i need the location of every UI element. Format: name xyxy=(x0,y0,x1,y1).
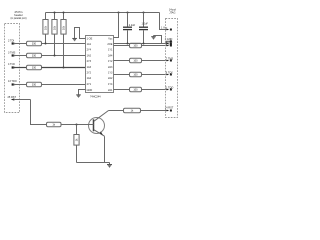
node dots on GND rail xyxy=(127,43,129,45)
svg-text:1A4: 1A4 xyxy=(87,77,92,80)
wire bottom ground rail xyxy=(77,162,110,164)
svg-text:1Y4: 1Y4 xyxy=(108,83,113,86)
IC U1 pin labels left xyxy=(87,37,93,92)
svg-text:10k: 10k xyxy=(62,25,65,30)
svg-text:330: 330 xyxy=(32,55,37,58)
header text: 25 pin male header (in parallel port) xyxy=(11,10,27,20)
wire row3 to IC (bold) xyxy=(42,67,86,69)
svg-text:1k: 1k xyxy=(131,110,134,113)
wire to pin 14 RST xyxy=(141,110,167,112)
capacitor C1 2.2uF xyxy=(123,13,136,44)
svg-text:1A3: 1A3 xyxy=(87,66,92,69)
ground (emitter) xyxy=(107,163,112,168)
svg-text:1.0uF: 1.0uF xyxy=(142,22,149,25)
right row C : wire IC to resistor xyxy=(114,74,130,76)
right row D : wire IC to resistor xyxy=(114,89,130,91)
svg-text:3 TMS: 3 TMS xyxy=(8,52,16,55)
svg-text:4 TCK: 4 TCK xyxy=(8,63,15,66)
wire emitter to ground rail xyxy=(104,136,106,162)
pin 3 TMS (left row 2) xyxy=(8,52,27,57)
resistor R14 base pulldown xyxy=(74,125,79,163)
wire row4 to IC xyxy=(42,84,86,86)
resistor R2 pull-up xyxy=(52,13,57,56)
svg-text:1Y2: 1Y2 xyxy=(108,60,113,63)
svg-text:1Y1: 1Y1 xyxy=(108,49,113,52)
svg-text:2A1: 2A1 xyxy=(108,89,113,92)
svg-text:2Y4: 2Y4 xyxy=(87,49,92,52)
svg-text:10k: 10k xyxy=(44,25,47,30)
node junction dots on top rail xyxy=(54,12,145,14)
resistor R13 base series xyxy=(47,122,62,126)
svg-text:2OE: 2OE xyxy=(107,43,112,46)
svg-text:2A2: 2A2 xyxy=(108,77,113,80)
node dot row1/R1 xyxy=(45,43,47,45)
right row A : wire IC to resistor xyxy=(114,45,130,47)
pin 13 TDO (left row 4) xyxy=(8,80,27,86)
svg-text:14 RST: 14 RST xyxy=(165,107,174,110)
wire GND branch to ground symbol xyxy=(154,36,162,44)
svg-text:2 TDI: 2 TDI xyxy=(8,40,14,43)
wire collector row to resistor xyxy=(109,110,124,112)
svg-text:1A2: 1A2 xyxy=(87,54,92,57)
svg-text:header: header xyxy=(14,13,23,17)
svg-text:100: 100 xyxy=(133,45,138,48)
wire RST down to base resistor xyxy=(31,100,47,125)
IC U1 74HC244 body xyxy=(86,36,114,93)
wire IC GND pin to ground xyxy=(79,90,86,95)
svg-text:11 TDO: 11 TDO xyxy=(165,86,174,89)
svg-text:13 TDO: 13 TDO xyxy=(8,80,17,83)
connector J2 JTAG (dashed box) xyxy=(166,19,178,118)
wire OE arch to ground xyxy=(75,28,86,39)
resistor R1 pull-up xyxy=(43,13,48,44)
wire row D to pin 11 TDO xyxy=(142,89,167,91)
svg-text:2A3: 2A3 xyxy=(108,66,113,69)
ground (near connector) xyxy=(151,36,156,39)
collector xyxy=(94,111,109,122)
resistor R9 row B xyxy=(130,58,142,62)
resistor R6 series row3 xyxy=(27,65,42,69)
pin 4 TCK (left row 3, bold net) xyxy=(8,63,27,69)
svg-text:2Y3: 2Y3 xyxy=(87,60,92,63)
transistor Q1 xyxy=(89,111,109,137)
pin 2 TDI (left row 1) xyxy=(8,40,27,45)
svg-text:Vcc: Vcc xyxy=(108,37,113,40)
wire GND rail xyxy=(114,43,167,45)
svg-text:100: 100 xyxy=(133,89,138,92)
svg-text:100: 100 xyxy=(133,74,138,77)
node dot row3/R3 xyxy=(63,67,65,69)
svg-text:2Y2: 2Y2 xyxy=(87,72,92,75)
svg-text:1k: 1k xyxy=(75,138,78,141)
capacitor C2 1.0uF xyxy=(139,13,148,44)
svg-text:25 RST: 25 RST xyxy=(8,96,17,99)
svg-text:10k: 10k xyxy=(53,25,56,30)
svg-text:(in parallel port): (in parallel port) xyxy=(11,17,27,20)
resistor R10 row C xyxy=(130,72,142,76)
wire row C to pin 9 TCK xyxy=(142,74,167,76)
svg-text:2.2uF: 2.2uF xyxy=(129,24,136,27)
svg-text:74HC244: 74HC244 xyxy=(90,95,101,98)
connector J1 parallel port (dashed box) xyxy=(5,24,20,113)
resistor R12 collector xyxy=(124,108,141,112)
wire row B to pin 7 TMS xyxy=(142,60,167,62)
node dot row2/R2 xyxy=(54,55,56,57)
svg-text:330: 330 xyxy=(32,67,37,70)
node base junction xyxy=(76,124,78,126)
svg-text:330: 330 xyxy=(32,84,37,87)
resistor R8 row A xyxy=(130,43,142,47)
resistor R5 series row2 xyxy=(27,53,42,57)
svg-text:2A4: 2A4 xyxy=(108,54,113,57)
svg-text:1k: 1k xyxy=(52,124,55,127)
wire Vcc to connector pin 1 xyxy=(160,13,167,30)
svg-text:1A1: 1A1 xyxy=(87,43,92,46)
resistor R3 pull-up xyxy=(61,13,66,68)
wire base xyxy=(61,124,94,126)
pin 25 RST (left row 5, output arrow) xyxy=(8,96,31,101)
wire row1 to IC xyxy=(42,43,86,45)
svg-text:JTAG: JTAG xyxy=(169,11,175,14)
svg-text:330: 330 xyxy=(32,43,37,46)
IC U1 pin labels right xyxy=(107,37,113,92)
right row B : wire IC to resistor xyxy=(114,60,130,62)
wire row2 to IC xyxy=(42,55,86,57)
ground (IC GND) xyxy=(76,95,81,97)
svg-text:GND: GND xyxy=(87,89,93,92)
header text: 14-pol JTAG xyxy=(169,9,176,15)
ground (OE) xyxy=(72,39,77,41)
emitter xyxy=(94,130,105,136)
wire VCC rail drop to IC pin 20 xyxy=(114,13,119,38)
svg-text:2Y1: 2Y1 xyxy=(87,83,92,86)
resistor R7 series row4 xyxy=(27,82,42,86)
wire top VCC rail xyxy=(46,12,160,14)
svg-text:1Y3: 1Y3 xyxy=(108,72,113,75)
wire row A to pin 4 TDI xyxy=(142,45,167,47)
svg-text:100: 100 xyxy=(133,60,138,63)
svg-text:1 OE: 1 OE xyxy=(87,37,93,40)
resistor R11 row D xyxy=(130,87,142,91)
resistor R4 series row1 xyxy=(27,41,42,45)
